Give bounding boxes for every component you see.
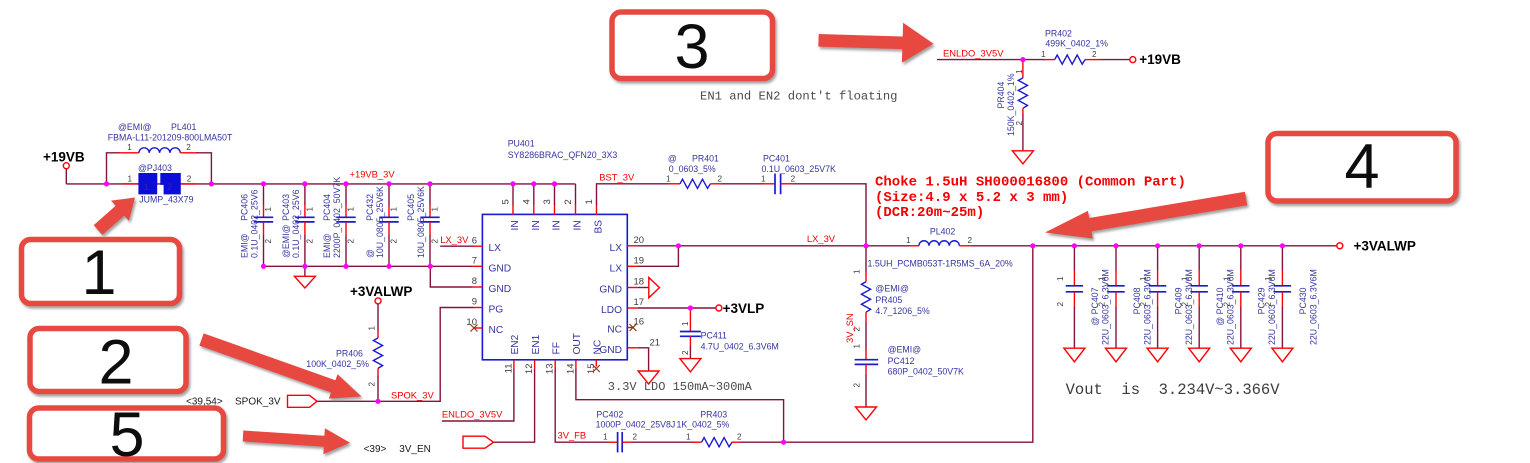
svg-text:22U_0603_6.3V6M: 22U_0603_6.3V6M	[1309, 269, 1319, 345]
callout box 2	[30, 328, 186, 398]
capacitor PC401	[761, 154, 836, 195]
svg-text:1: 1	[584, 199, 595, 204]
svg-text:PR403: PR403	[700, 410, 727, 420]
resistor PR401	[666, 154, 723, 189]
svg-text:PC430: PC430	[1298, 287, 1308, 314]
wire IC pin8 GND branch	[430, 266, 473, 287]
port 3V_EN	[364, 436, 494, 455]
svg-text:8: 8	[472, 276, 477, 287]
svg-text:3V_FB: 3V_FB	[558, 430, 587, 441]
wire +19VB to rail	[65, 169, 67, 184]
svg-text:PC403: PC403	[281, 194, 291, 221]
jumper PJ403	[123, 163, 197, 205]
inductor PL402	[868, 227, 1013, 269]
svg-text:PC406: PC406	[240, 194, 250, 221]
svg-text:2: 2	[1098, 302, 1107, 307]
svg-text:PG: PG	[489, 305, 504, 316]
capacitor PC429	[1222, 246, 1277, 348]
pin 2 IN	[563, 184, 576, 215]
wire LDO to +3VLP	[637, 307, 716, 309]
svg-text:1: 1	[347, 207, 356, 212]
ground at PC408	[1106, 348, 1127, 362]
svg-text:2: 2	[1222, 302, 1231, 307]
svg-text:1: 1	[1222, 276, 1231, 281]
svg-text:1: 1	[853, 269, 862, 274]
svg-text:PC402: PC402	[596, 410, 623, 420]
wire ENLDO_3V5V stub	[937, 59, 1045, 61]
capacitor PC405	[406, 184, 440, 266]
svg-text:1: 1	[1015, 69, 1024, 74]
svg-text:@EMI@: @EMI@	[281, 224, 291, 258]
svg-text:2: 2	[1139, 302, 1148, 307]
capacitor PC430	[1264, 246, 1319, 348]
svg-text:15: 15	[586, 364, 597, 375]
svg-text:1: 1	[603, 433, 608, 442]
pin 15 NC with X	[586, 360, 600, 374]
svg-text:FF: FF	[551, 342, 562, 354]
svg-text:@EMI@: @EMI@	[888, 344, 922, 354]
svg-text:PC412: PC412	[888, 356, 915, 366]
node +3VALWP output terminal	[1337, 239, 1416, 254]
svg-text:1.5UH_PCMB053T-1R5MS_6A_20%: 1.5UH_PCMB053T-1R5MS_6A_20%	[868, 259, 1013, 269]
wire LX_3V rail	[637, 245, 910, 247]
svg-text:NC: NC	[593, 340, 604, 355]
capacitor PC408	[1098, 246, 1153, 348]
svg-text:+3VALWP: +3VALWP	[350, 284, 412, 299]
svg-text:2: 2	[264, 239, 273, 244]
svg-text:<39>: <39>	[364, 444, 387, 455]
pin 3 IN	[542, 184, 555, 215]
svg-text:GND: GND	[489, 264, 512, 275]
svg-text:1: 1	[853, 344, 862, 349]
svg-text:PC429: PC429	[1257, 287, 1267, 314]
svg-text:EN1 and EN2 dont't floating: EN1 and EN2 dont't floating	[700, 90, 897, 104]
pin 6 LX net LX_3V stub	[440, 234, 482, 246]
svg-text:Vout is 3.234V~3.366V: Vout is 3.234V~3.366V	[1066, 381, 1281, 399]
svg-text:PL401: PL401	[171, 122, 197, 132]
svg-text:1: 1	[1264, 276, 1273, 281]
callout arrow 3	[818, 23, 933, 63]
pin 7 GND	[472, 255, 483, 266]
wire PC401 to LX rail	[792, 184, 866, 246]
pin 18 GND sideways ground	[627, 277, 659, 298]
svg-text:+19VB: +19VB	[1139, 52, 1181, 67]
svg-text:1: 1	[1181, 276, 1190, 281]
ground at PC409	[1147, 348, 1168, 362]
svg-text:(Size:4.9 x 5.2 x 3 mm): (Size:4.9 x 5.2 x 3 mm)	[875, 190, 1068, 206]
ground at PC429	[1230, 348, 1251, 362]
svg-text:17: 17	[634, 297, 645, 308]
svg-text:18: 18	[634, 277, 645, 288]
svg-text:BST_3V: BST_3V	[599, 172, 635, 183]
svg-text:PR406: PR406	[336, 349, 363, 359]
svg-text:1: 1	[305, 207, 314, 212]
svg-text:@EMI@: @EMI@	[875, 284, 909, 294]
svg-text:LX: LX	[610, 243, 623, 254]
svg-text:680P_0402_50V7K: 680P_0402_50V7K	[888, 367, 964, 377]
svg-text:4.7_1206_5%: 4.7_1206_5%	[875, 306, 929, 316]
svg-text:2: 2	[390, 239, 399, 244]
wire +19VB_3V rail	[66, 183, 575, 185]
svg-text:10U_0805_25V6K: 10U_0805_25V6K	[375, 186, 385, 258]
svg-text:11: 11	[503, 364, 514, 374]
pin 14 OUT	[565, 360, 576, 374]
svg-text:LX: LX	[489, 243, 502, 254]
svg-text:2: 2	[1092, 50, 1097, 59]
wire PR401 to PC401	[722, 183, 764, 185]
capacitor PC432	[365, 184, 399, 266]
pin 19 LX	[627, 256, 644, 267]
svg-text:2: 2	[1015, 121, 1024, 126]
svg-text:GND: GND	[599, 285, 622, 296]
svg-text:2: 2	[853, 383, 862, 388]
svg-text:3.3V LDO 150mA~300mA: 3.3V LDO 150mA~300mA	[608, 380, 753, 394]
svg-text:PC432: PC432	[365, 194, 375, 221]
svg-text:1: 1	[666, 174, 671, 183]
pin 4 IN	[521, 184, 534, 215]
pin 8 GND	[472, 276, 483, 287]
pin 5 IN	[501, 184, 514, 215]
svg-text:2: 2	[305, 239, 314, 244]
svg-text:ENLDO_3V5V: ENLDO_3V5V	[943, 48, 1004, 59]
wire LX_3V rail after choke to +3VALWP	[971, 245, 1337, 247]
svg-text:2: 2	[1264, 302, 1273, 307]
callout box 3	[612, 12, 773, 82]
svg-text:IN: IN	[510, 220, 521, 230]
wire EN1 to 3V_EN port	[493, 369, 535, 442]
svg-text:IN: IN	[552, 220, 563, 230]
svg-text:1: 1	[128, 175, 133, 184]
svg-text:2: 2	[431, 239, 440, 244]
svg-text:150K_0402_1%: 150K_0402_1%	[1006, 73, 1016, 136]
pin 13 FF	[545, 360, 556, 374]
svg-text:3V_EN: 3V_EN	[399, 444, 431, 455]
svg-text:PR401: PR401	[692, 154, 719, 164]
wire EN2 to ENLDO_3V5V stub	[442, 369, 514, 421]
svg-text:PC405: PC405	[406, 194, 416, 221]
pin 20 LX	[627, 235, 644, 246]
svg-text:2: 2	[633, 433, 638, 442]
svg-text:2: 2	[1181, 302, 1190, 307]
svg-text:PC409: PC409	[1173, 287, 1183, 314]
callout box 1	[22, 238, 180, 308]
node +3VLP terminal	[716, 301, 764, 316]
svg-text:1: 1	[686, 433, 691, 442]
wire PC402 to PR403	[631, 441, 694, 443]
svg-text:1: 1	[144, 182, 149, 192]
wire feedback from output rail	[784, 246, 1033, 442]
svg-text:5: 5	[109, 400, 144, 463]
junctions (solder dots)	[104, 57, 1285, 445]
wire input caps ground rail to IC GND pin7	[264, 265, 473, 267]
svg-text:PU401: PU401	[508, 139, 535, 149]
callout box 5	[30, 400, 224, 463]
svg-text:4: 4	[521, 199, 532, 204]
svg-text:1: 1	[431, 207, 440, 212]
svg-text:@: @	[365, 249, 375, 258]
svg-text:100K_0402_5%: 100K_0402_5%	[306, 359, 369, 369]
resistor PR402	[1041, 29, 1108, 65]
svg-text:1000P_0402_25V8J: 1000P_0402_25V8J	[596, 419, 676, 429]
wire PR402 to +19VB	[1099, 59, 1130, 61]
svg-text:2: 2	[167, 182, 172, 192]
svg-text:0.1U_0603_25V7K: 0.1U_0603_25V7K	[762, 164, 836, 174]
svg-text:1: 1	[1056, 276, 1065, 281]
pin 17 LDO	[627, 297, 644, 308]
svg-text:ENLDO_3V5V: ENLDO_3V5V	[442, 409, 503, 420]
svg-text:GND: GND	[489, 284, 512, 295]
svg-text:12: 12	[524, 364, 535, 375]
svg-text:+3VALWP: +3VALWP	[1354, 239, 1416, 254]
svg-text:21: 21	[650, 338, 661, 349]
svg-text:2: 2	[563, 199, 574, 204]
svg-text:0.1U_0402_25V6: 0.1U_0402_25V6	[250, 189, 260, 258]
svg-text:PC408: PC408	[1132, 287, 1142, 314]
callout arrow 2	[199, 333, 361, 398]
svg-text:1: 1	[81, 238, 116, 308]
svg-text:1: 1	[1098, 276, 1107, 281]
node +19VB input terminal	[43, 150, 85, 169]
svg-text:@EMI@: @EMI@	[118, 122, 152, 132]
svg-text:7: 7	[472, 255, 477, 266]
pin 11 EN2	[503, 360, 514, 374]
svg-text:NC: NC	[489, 325, 504, 336]
pin 16 NC with X	[627, 317, 644, 331]
svg-text:LX_3V: LX_3V	[440, 234, 469, 245]
svg-text:+19VB_3V: +19VB_3V	[350, 169, 396, 180]
port SPOK_3V	[186, 395, 317, 407]
op-amp/regulator IC PU401 SY8286BRAC_QFN20_3X3	[482, 139, 627, 360]
svg-text:PR405: PR405	[875, 295, 902, 305]
capacitor PC403	[281, 184, 315, 266]
wire FF to feedback network	[555, 369, 610, 442]
svg-text:20: 20	[634, 235, 645, 246]
capacitor PC406	[240, 184, 274, 266]
svg-text:0.1U_0402_25V6: 0.1U_0402_25V6	[291, 189, 301, 258]
svg-text:9: 9	[472, 297, 477, 308]
svg-text:1: 1	[368, 326, 377, 331]
svg-text:2: 2	[737, 433, 742, 442]
svg-text:PR402: PR402	[1045, 29, 1072, 39]
svg-text:EMI@: EMI@	[240, 233, 250, 258]
svg-text:4.7U_0402_6.3V6M: 4.7U_0402_6.3V6M	[701, 342, 779, 352]
svg-text:JUMP_43X79: JUMP_43X79	[139, 195, 193, 205]
svg-text:5: 5	[501, 199, 512, 204]
capacitor PC407	[1056, 246, 1111, 348]
svg-text:1: 1	[264, 207, 273, 212]
svg-text:PC404: PC404	[322, 194, 332, 221]
svg-text:@PJ403: @PJ403	[138, 163, 172, 173]
svg-text:PR404: PR404	[996, 81, 1006, 108]
callout arrow 5	[243, 428, 350, 454]
svg-text:2: 2	[187, 175, 192, 184]
capacitor PC402	[596, 410, 676, 453]
svg-text:IN: IN	[531, 220, 542, 230]
svg-text:2200P_0402_50V7K: 2200P_0402_50V7K	[332, 177, 342, 258]
node +19VB terminal (right)	[1130, 52, 1181, 67]
svg-text:2: 2	[368, 382, 377, 387]
pin 10 NC with X	[466, 317, 482, 331]
ground at input caps	[294, 266, 315, 288]
svg-text:+19VB: +19VB	[43, 150, 85, 165]
svg-text:2: 2	[1056, 302, 1065, 307]
svg-text:+3VLP: +3VLP	[723, 301, 765, 316]
svg-text:EMI@: EMI@	[322, 233, 332, 258]
capacitor PC411	[680, 308, 779, 359]
svg-text:FBMA-L11-201209-800LMA50T: FBMA-L11-201209-800LMA50T	[108, 133, 233, 143]
svg-text:2: 2	[347, 239, 356, 244]
svg-text:1: 1	[1041, 50, 1046, 59]
ground at PC410	[1189, 348, 1210, 362]
svg-text:LX: LX	[610, 263, 623, 274]
svg-text:OUT: OUT	[572, 333, 583, 355]
callout box 4	[1268, 132, 1456, 202]
wire OUT to feedback junction	[576, 369, 784, 442]
svg-text:LX_3V: LX_3V	[807, 233, 836, 244]
svg-text:PC411: PC411	[701, 331, 727, 341]
svg-text:3: 3	[542, 199, 553, 204]
svg-text:BS: BS	[594, 220, 605, 234]
wire pin19 join pin20	[637, 246, 678, 266]
svg-text:1K_0402_5%: 1K_0402_5%	[677, 419, 730, 429]
svg-text:PL402: PL402	[930, 227, 956, 237]
svg-text:@: @	[668, 154, 677, 164]
svg-text:Choke 1.5uH SH000016800 (Commo: Choke 1.5uH SH000016800 (Common Part)	[875, 175, 1186, 191]
wire SPOK_3V to PG	[317, 308, 473, 402]
inductor PL401	[107, 122, 233, 184]
svg-text:EN2: EN2	[510, 334, 521, 354]
svg-text:2: 2	[791, 174, 796, 183]
svg-text:1: 1	[1139, 276, 1148, 281]
svg-text:0_0603_5%: 0_0603_5%	[669, 164, 716, 174]
svg-text:4: 4	[1344, 132, 1379, 202]
capacitor PC404	[322, 177, 356, 267]
svg-text:PC401: PC401	[763, 154, 790, 164]
resistor PR405	[853, 246, 930, 332]
svg-text:(DCR:20m~25m): (DCR:20m~25m)	[875, 205, 984, 221]
ground at PC407	[1064, 348, 1085, 362]
ground at PC411	[680, 359, 701, 372]
svg-text:14: 14	[565, 364, 576, 375]
capacitor PC410	[1181, 246, 1236, 348]
svg-text:19: 19	[634, 256, 645, 267]
svg-text:2: 2	[968, 236, 973, 245]
callout arrow 4	[1045, 192, 1247, 239]
resistor PR406 pull-up	[306, 284, 412, 401]
svg-text:IN: IN	[573, 220, 584, 230]
capacitor PC409	[1139, 246, 1194, 348]
pin 12 EN1	[524, 360, 535, 374]
svg-text:LDO: LDO	[601, 305, 622, 316]
svg-text:1: 1	[681, 321, 690, 326]
callout arrow 1	[94, 198, 135, 235]
capacitor PC412	[853, 344, 965, 408]
ground at PC430	[1272, 348, 1293, 362]
text Choke note	[875, 175, 1186, 221]
svg-text:SPOK_3V: SPOK_3V	[391, 390, 434, 401]
ground at PC412	[856, 407, 877, 420]
svg-text:SPOK_3V: SPOK_3V	[235, 397, 281, 408]
svg-text:2: 2	[186, 143, 191, 152]
ground at PR404	[1012, 151, 1033, 164]
svg-text:2: 2	[98, 328, 133, 398]
svg-text:1: 1	[906, 236, 911, 245]
wire PR405 to PC412	[865, 323, 867, 350]
pin 9 PG	[472, 297, 483, 308]
svg-text:3V_SN: 3V_SN	[844, 313, 855, 343]
svg-text:SY8286BRAC_QFN20_3X3: SY8286BRAC_QFN20_3X3	[508, 150, 618, 160]
resistor PR404 pull-down	[996, 60, 1028, 151]
svg-text:1: 1	[390, 207, 399, 212]
wire PR403 to feedback junction	[740, 441, 784, 443]
svg-text:3: 3	[674, 12, 709, 82]
svg-text:1: 1	[127, 143, 132, 152]
pin 1 BS + BST_3V wire	[584, 184, 670, 215]
svg-text:1: 1	[761, 174, 766, 183]
svg-text:2: 2	[681, 350, 690, 355]
svg-text:2: 2	[718, 174, 723, 183]
svg-text:6: 6	[472, 235, 477, 246]
svg-text:499K_0402_1%: 499K_0402_1%	[1045, 38, 1108, 48]
svg-text:13: 13	[545, 364, 556, 375]
pin 21 GND to ground	[627, 338, 660, 385]
svg-text:NC: NC	[607, 325, 622, 336]
resistor PR403	[677, 410, 743, 447]
svg-text:EN1: EN1	[531, 334, 542, 354]
svg-text:10U_0805_25V6K: 10U_0805_25V6K	[416, 186, 426, 258]
